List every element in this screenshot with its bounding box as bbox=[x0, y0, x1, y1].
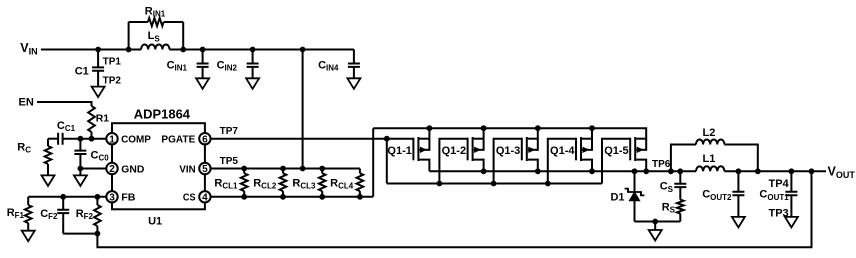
svg-text:L2: L2 bbox=[702, 127, 715, 139]
resistor R1 bbox=[88, 106, 95, 132]
wire GND pin lead bbox=[80, 168, 106, 170]
wire gate bus riser bbox=[386, 139, 388, 184]
svg-text:Q1-1: Q1-1 bbox=[387, 145, 411, 157]
capacitor CIN1 bbox=[200, 47, 206, 53]
node Q1-2 drain bus junction bbox=[481, 168, 487, 174]
ground below CIN2 bbox=[246, 78, 259, 89]
resistor RF2 bbox=[95, 194, 101, 200]
wire CS riser to source rail bbox=[372, 128, 374, 197]
pin 5 VIN bbox=[199, 163, 210, 174]
svg-text:TP6: TP6 bbox=[652, 159, 671, 170]
node VIN riser junction bbox=[300, 47, 306, 53]
node Q1-3 drain bus junction bbox=[535, 168, 541, 174]
wire PGATE pin 6 to gates bbox=[211, 138, 414, 140]
svg-text:6: 6 bbox=[202, 134, 208, 145]
op-amp U1 ADP1864 body bbox=[112, 123, 205, 209]
wire VIN riser to pin 5 bbox=[302, 50, 304, 169]
wire C1 lead bbox=[97, 50, 99, 68]
wire FB row bbox=[28, 196, 106, 198]
pin 3 FB bbox=[106, 191, 117, 202]
svg-text:2: 2 bbox=[109, 164, 115, 175]
node Q1-2 source rail junction bbox=[481, 125, 487, 131]
resistor RIN1 bypass loop bbox=[128, 22, 130, 50]
svg-text:R1: R1 bbox=[96, 112, 110, 124]
resistor RCL1 bbox=[241, 166, 247, 172]
ground below COUT2 bbox=[732, 217, 745, 228]
capacitor CC0 bbox=[79, 139, 81, 151]
transistor Q1-2 bbox=[468, 128, 484, 171]
node PGATE to gate-bus junction bbox=[384, 136, 390, 142]
node Q1-1 source rail junction bbox=[427, 125, 433, 131]
svg-text:3: 3 bbox=[109, 192, 115, 203]
capacitor CC1 bbox=[48, 138, 58, 140]
ground below CIN1 bbox=[196, 78, 209, 89]
diode D1 schottky bbox=[632, 168, 638, 174]
node Q1-3 gate bus junction bbox=[491, 181, 497, 187]
svg-text:5: 5 bbox=[202, 164, 208, 175]
wire VIN pin 5 bbox=[211, 168, 360, 170]
wire Q1-2 gate riser bbox=[439, 139, 467, 184]
wire gate bus bbox=[387, 183, 602, 185]
svg-text:ADP1864: ADP1864 bbox=[134, 108, 190, 122]
ground below CIN4 bbox=[347, 78, 360, 89]
inductor L1 bbox=[696, 166, 724, 171]
node R1 to COMP junction bbox=[89, 136, 95, 142]
pin 2 GND bbox=[106, 163, 117, 174]
wire switch node bus bbox=[429, 170, 696, 172]
ground below D1/RS bbox=[649, 230, 662, 241]
ground below RF1 bbox=[22, 231, 35, 242]
node Q1-5 drain bus junction bbox=[643, 168, 649, 174]
capacitor CIN4 bbox=[353, 50, 355, 64]
wire CS pin 4 bbox=[211, 196, 374, 198]
resistor RC bbox=[47, 139, 49, 146]
svg-text:EN: EN bbox=[19, 97, 34, 109]
svg-text:TP4: TP4 bbox=[769, 178, 790, 190]
transistor Q1-3 bbox=[522, 128, 538, 171]
resistor RS snubber bbox=[679, 187, 681, 200]
svg-text:L1: L1 bbox=[702, 153, 715, 165]
pin 1 COMP bbox=[106, 133, 117, 144]
wire VIN rail bbox=[41, 49, 141, 51]
node Q1-4 source rail junction bbox=[589, 125, 595, 131]
node riser junction on VIN wire bbox=[300, 166, 306, 172]
svg-text:TP1: TP1 bbox=[103, 56, 122, 67]
svg-text:CS: CS bbox=[183, 192, 196, 204]
ground below COUT1 bbox=[785, 217, 798, 228]
inductor LS bbox=[141, 44, 169, 49]
capacitor COUT1 bbox=[789, 168, 795, 174]
node LS right bbox=[180, 47, 186, 53]
svg-text:TP5: TP5 bbox=[220, 156, 239, 167]
svg-text:Q1-2: Q1-2 bbox=[442, 145, 466, 157]
transistor Q1-1 bbox=[413, 128, 429, 171]
node GND/CC0 junction bbox=[78, 166, 84, 172]
wire snubber ground rail bbox=[635, 221, 681, 223]
resistor RIN1 bbox=[148, 18, 164, 26]
resistor RF1 bbox=[27, 197, 29, 205]
transistor Q1-5 bbox=[630, 137, 646, 171]
svg-text:Q1-3: Q1-3 bbox=[496, 145, 520, 157]
inductor L2 bypass loop bbox=[668, 168, 674, 174]
node Q1-3 source rail junction bbox=[535, 125, 541, 131]
pin 4 CS bbox=[199, 191, 210, 202]
node Q1-4 gate bus junction bbox=[545, 181, 551, 187]
capacitor CS snubber bbox=[677, 168, 683, 174]
svg-text:Q1-5: Q1-5 bbox=[604, 145, 628, 157]
wire source rail bbox=[373, 128, 646, 151]
ground below C1 bbox=[92, 87, 105, 98]
svg-text:COMP: COMP bbox=[121, 134, 151, 146]
capacitor COUT2 bbox=[736, 168, 742, 174]
node snubber ground junction bbox=[652, 219, 658, 225]
capacitor CF2 bbox=[60, 194, 66, 200]
ground below CC0 bbox=[74, 175, 87, 186]
svg-text:4: 4 bbox=[202, 192, 208, 203]
node Q1-4 drain bus junction bbox=[589, 168, 595, 174]
node LS left bbox=[126, 47, 132, 53]
svg-text:1: 1 bbox=[109, 134, 115, 145]
transistor Q1-4 bbox=[576, 128, 592, 171]
node VOUT junction bbox=[809, 168, 815, 174]
wire feedback return line bbox=[97, 171, 811, 247]
node Q1-2 gate bus junction bbox=[437, 181, 443, 187]
wire Q1-4 gate riser bbox=[548, 139, 576, 184]
svg-text:C1: C1 bbox=[75, 65, 89, 77]
capacitor C1 bbox=[92, 67, 104, 70]
svg-text:Q1-4: Q1-4 bbox=[550, 145, 575, 157]
svg-text:TP2: TP2 bbox=[103, 75, 122, 86]
pin 6 PGATE bbox=[199, 133, 210, 144]
svg-text:U1: U1 bbox=[148, 215, 162, 227]
capacitor CIN2 bbox=[250, 47, 256, 53]
svg-text:D1: D1 bbox=[610, 191, 624, 203]
resistor RCL3 bbox=[319, 166, 325, 172]
wire EN bbox=[37, 102, 92, 106]
node COMP junction CC0 bbox=[78, 136, 84, 142]
ground below RC bbox=[42, 175, 55, 186]
wire Q1-3 gate riser bbox=[494, 139, 522, 184]
svg-text:TP7: TP7 bbox=[220, 126, 239, 137]
node TP1/TP2 junction bbox=[95, 47, 101, 53]
svg-text:FB: FB bbox=[121, 192, 136, 204]
resistor RCL4 bbox=[359, 169, 361, 174]
svg-text:PGATE: PGATE bbox=[161, 134, 195, 146]
wire CF2 bottom to RF2 bottom bbox=[63, 233, 97, 235]
svg-text:VIN: VIN bbox=[179, 163, 195, 175]
node feedback junction bbox=[95, 231, 101, 237]
svg-text:GND: GND bbox=[121, 163, 144, 175]
resistor RCL2 bbox=[280, 166, 286, 172]
wire Q1-5 gate riser bbox=[602, 139, 630, 184]
